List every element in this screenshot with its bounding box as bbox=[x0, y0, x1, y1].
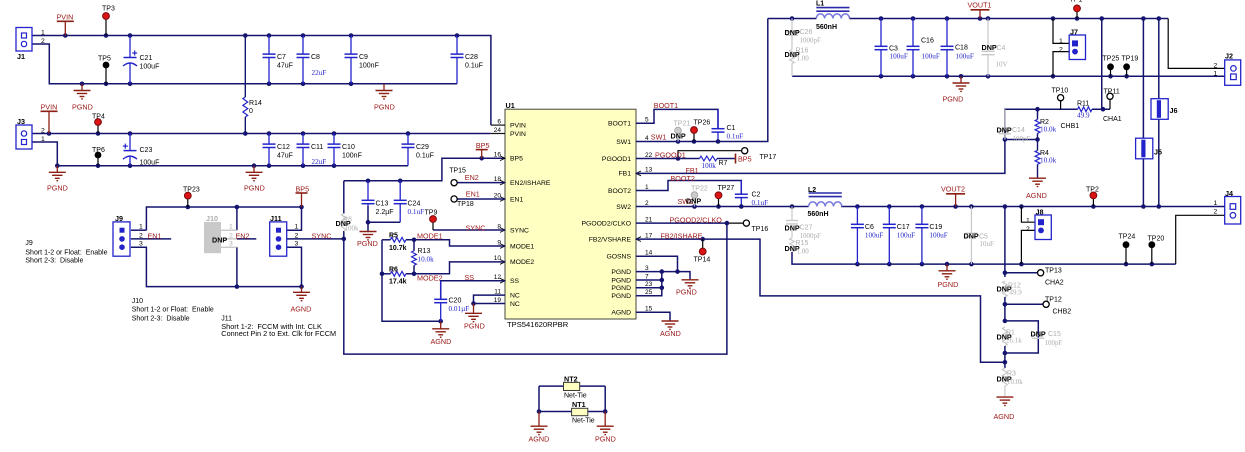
power port PVIN (rail2) bbox=[41, 103, 58, 134]
svg-text:AGND: AGND bbox=[291, 305, 312, 314]
svg-text:TP9: TP9 bbox=[425, 210, 438, 217]
svg-text:Short 2-3: Disable: Short 2-3: Disable bbox=[25, 258, 83, 265]
test point TP4 bbox=[95, 119, 102, 126]
test point TP27 bbox=[715, 192, 722, 199]
capacitor C14 (DNP) bbox=[999, 109, 1011, 139]
svg-text:TP20: TP20 bbox=[1148, 236, 1165, 243]
svg-text:TP1: TP1 bbox=[1070, 0, 1083, 4]
svg-text:C27: C27 bbox=[800, 225, 813, 232]
ground AGND at NT bbox=[529, 412, 550, 444]
junction dots SW1 bbox=[676, 139, 721, 144]
connector J7 bbox=[1059, 28, 1086, 60]
wire MODE1 row left bbox=[382, 239, 390, 241]
svg-text:1.00: 1.00 bbox=[797, 55, 810, 63]
net-tie NT1 bbox=[572, 400, 595, 424]
test point TP17 bbox=[742, 148, 748, 154]
capacitor C5 (DNP) bbox=[965, 207, 977, 265]
test point TP10 bbox=[1058, 95, 1064, 101]
svg-text:26.1k: 26.1k bbox=[1006, 336, 1022, 344]
ground PGND under J1 rail bbox=[72, 84, 93, 112]
svg-text:R11: R11 bbox=[1077, 100, 1089, 107]
capacitor C15 (DNP) bbox=[1032, 335, 1044, 338]
test point TP2 bbox=[1090, 192, 1097, 199]
wire J3 pin1 to PGND bottom rail2 bbox=[32, 142, 408, 166]
test point TP5 bbox=[103, 62, 110, 69]
svg-text:C6: C6 bbox=[865, 224, 874, 231]
svg-text:DNP: DNP bbox=[686, 197, 701, 206]
svg-text:NC: NC bbox=[510, 292, 520, 299]
svg-text:PGOOD1: PGOOD1 bbox=[655, 151, 686, 160]
svg-text:DNP: DNP bbox=[964, 232, 979, 241]
wire J11 pin1 riser bbox=[286, 207, 301, 230]
svg-text:BP5: BP5 bbox=[738, 154, 752, 163]
svg-text:C20: C20 bbox=[449, 298, 462, 305]
svg-text:J7: J7 bbox=[1070, 28, 1078, 37]
svg-text:22uF: 22uF bbox=[312, 158, 327, 166]
resistor R15 (DNP) bbox=[790, 238, 795, 252]
wire R1 bottom to FB2 node bbox=[1004, 346, 1006, 368]
svg-text:0: 0 bbox=[249, 108, 253, 115]
ground AGND under R3 bbox=[994, 397, 1015, 421]
svg-text:R13: R13 bbox=[418, 248, 431, 255]
power port BP5 at J11 bbox=[296, 184, 310, 207]
svg-text:PGND: PGND bbox=[611, 277, 631, 284]
svg-text:TP10: TP10 bbox=[1052, 87, 1069, 94]
resistor R14 bbox=[243, 97, 248, 117]
wire SS to C20 bbox=[441, 281, 505, 299]
junction dot TP14 bbox=[700, 237, 705, 242]
svg-text:TP12: TP12 bbox=[1045, 297, 1062, 304]
wire R12 to TP12 node bbox=[1004, 297, 1006, 321]
test point TP18 bbox=[451, 196, 457, 202]
test point TP25 bbox=[1107, 63, 1114, 70]
svg-text:PGND: PGND bbox=[47, 184, 68, 193]
capacitor C18 bbox=[941, 19, 954, 77]
svg-text:PGND: PGND bbox=[357, 239, 378, 248]
svg-text:100pF: 100pF bbox=[1013, 135, 1031, 143]
U1 left pin names bbox=[510, 122, 551, 307]
svg-text:TP13: TP13 bbox=[1045, 267, 1062, 274]
svg-text:J1: J1 bbox=[17, 52, 25, 61]
svg-text:R14: R14 bbox=[249, 100, 262, 107]
svg-text:10.0k: 10.0k bbox=[1040, 126, 1057, 134]
svg-text:MODE2: MODE2 bbox=[417, 274, 443, 283]
svg-text:C13: C13 bbox=[376, 201, 389, 208]
wire PVIN rail2 from J3 pin2 to U1 bbox=[32, 133, 490, 135]
test point TP1 stub bbox=[1076, 12, 1078, 19]
svg-text:TP18: TP18 bbox=[457, 201, 474, 208]
svg-text:PVIN: PVIN bbox=[510, 122, 526, 129]
junction dots PGND rail ch2 bbox=[855, 262, 1154, 267]
capacitor C16 bbox=[907, 19, 920, 77]
svg-text:SYNC: SYNC bbox=[466, 223, 486, 232]
svg-text:C26: C26 bbox=[800, 29, 813, 36]
test point TP11 bbox=[1107, 93, 1113, 99]
wire J7 pin1 bbox=[1053, 19, 1070, 44]
svg-text:0.01µF: 0.01µF bbox=[449, 305, 470, 313]
wire J11 pin2 SYNC bbox=[286, 238, 344, 240]
svg-text:Short 1-2 or Float: Enable: Short 1-2 or Float: Enable bbox=[25, 250, 107, 257]
wire SYNC/CLKO long route bbox=[344, 223, 727, 354]
svg-text:C8: C8 bbox=[311, 54, 320, 61]
wire SW1 rail to L1 bbox=[636, 19, 768, 142]
wire J1 pin2 to PGND bottom rail bbox=[32, 44, 457, 84]
svg-text:TP14: TP14 bbox=[694, 256, 711, 263]
wire EN2 to TP15 bbox=[454, 182, 505, 184]
svg-text:AGND: AGND bbox=[1026, 191, 1047, 200]
svg-text:R16: R16 bbox=[796, 48, 809, 55]
junction dots VOUT2 rail bbox=[855, 204, 1161, 209]
svg-text:100uF: 100uF bbox=[865, 232, 883, 240]
svg-text:2: 2 bbox=[229, 232, 233, 239]
svg-text:0.1uF: 0.1uF bbox=[416, 153, 434, 160]
test point TP21 (DNP) stub bbox=[677, 134, 679, 142]
test point TP16 bbox=[743, 220, 749, 226]
wire J7 pin2 bbox=[1053, 52, 1070, 77]
inductor L1 bbox=[816, 8, 849, 19]
svg-text:PGND: PGND bbox=[611, 269, 631, 276]
svg-text:R3: R3 bbox=[1007, 371, 1016, 378]
wire J9 pin1 bbox=[131, 229, 147, 231]
connector J9 bbox=[113, 214, 143, 256]
wire SYNC pin8 bbox=[433, 229, 505, 231]
svg-text:100nF: 100nF bbox=[359, 63, 379, 70]
test point TP26 stub bbox=[693, 133, 695, 141]
svg-text:AGND: AGND bbox=[660, 329, 681, 338]
wire J9 pin3 to AGND rail bbox=[131, 247, 302, 286]
svg-text:1: 1 bbox=[139, 224, 143, 231]
svg-text:VOUT1: VOUT1 bbox=[968, 1, 992, 10]
svg-text:1000pF: 1000pF bbox=[800, 232, 822, 240]
capacitor C6 bbox=[851, 207, 864, 265]
svg-text:TP16: TP16 bbox=[752, 226, 769, 233]
test point TP20 stub bbox=[1151, 248, 1153, 264]
svg-text:10.0k: 10.0k bbox=[1040, 157, 1057, 165]
test point TP6 stub bbox=[97, 158, 99, 166]
ground PGND ch1 output bbox=[943, 76, 970, 103]
test point TP13 bbox=[1038, 270, 1044, 276]
svg-text:J9: J9 bbox=[25, 240, 33, 247]
svg-text:Net-Tie: Net-Tie bbox=[572, 418, 595, 425]
svg-text:100k: 100k bbox=[345, 225, 360, 233]
capacitor C4 (DNP) bbox=[982, 19, 995, 77]
wire R13 bottom lead bbox=[413, 265, 415, 273]
svg-text:DNP: DNP bbox=[1031, 330, 1046, 339]
svg-text:AGND: AGND bbox=[611, 310, 631, 317]
wire left riser to AGND node bbox=[382, 240, 441, 321]
capacitor C11 bbox=[297, 134, 310, 166]
svg-text:24: 24 bbox=[494, 127, 502, 134]
svg-text:DNP: DNP bbox=[785, 223, 800, 232]
wire C13 bottom to PGND bbox=[367, 206, 369, 232]
capacitor C21 (polarized) bbox=[123, 36, 137, 84]
svg-text:3: 3 bbox=[139, 241, 143, 248]
U1 right pin numbers bbox=[645, 117, 653, 313]
svg-text:DNP: DNP bbox=[997, 126, 1012, 135]
connector J10 (DNP) bbox=[204, 214, 237, 253]
svg-text:C21: C21 bbox=[140, 55, 153, 62]
junction dots PVIN rail1 bbox=[63, 33, 459, 38]
wire J8 pin2 bbox=[1021, 230, 1036, 264]
svg-text:J6: J6 bbox=[1170, 106, 1178, 115]
test point TP10 stub bbox=[1060, 101, 1062, 109]
svg-text:560nH: 560nH bbox=[816, 24, 837, 31]
junction dot PGOOD1 bbox=[676, 156, 681, 161]
svg-text:C17: C17 bbox=[897, 224, 910, 231]
capacitor C9 bbox=[345, 36, 358, 84]
svg-text:1: 1 bbox=[41, 136, 45, 143]
svg-text:TP6: TP6 bbox=[92, 147, 105, 154]
svg-text:J2: J2 bbox=[1225, 52, 1233, 61]
wire NT right riser bbox=[604, 386, 606, 411]
svg-text:49.9: 49.9 bbox=[1010, 289, 1023, 297]
wire J10 pin2 EN2 bbox=[237, 238, 256, 240]
svg-text:SS: SS bbox=[465, 273, 475, 282]
capacitor C13 bbox=[362, 181, 375, 206]
wire PGOOD2/CLKO bbox=[636, 222, 727, 224]
connector J11 bbox=[270, 214, 299, 256]
svg-text:PGOOD2/CLKO: PGOOD2/CLKO bbox=[670, 216, 723, 225]
wire J10 pin1 riser bbox=[236, 207, 238, 230]
wire C15 parallel branch bbox=[1005, 321, 1038, 353]
test point TP5 stub bbox=[105, 68, 107, 84]
junction dots bottom rail2 bbox=[55, 163, 336, 168]
wire J10 pin3 riser bbox=[236, 247, 238, 286]
junction dots NT bbox=[537, 409, 608, 414]
test point TP12 bbox=[1043, 301, 1049, 307]
svg-text:BP5: BP5 bbox=[296, 184, 310, 193]
capacitor C7 bbox=[263, 36, 276, 84]
svg-text:TP3: TP3 bbox=[102, 6, 115, 13]
resistor R11 bbox=[1078, 107, 1092, 112]
svg-text:PGND: PGND bbox=[595, 434, 616, 443]
svg-text:TP23: TP23 bbox=[183, 186, 200, 193]
svg-text:TP15: TP15 bbox=[449, 167, 466, 174]
svg-text:SW2: SW2 bbox=[616, 204, 631, 211]
svg-text:R7: R7 bbox=[719, 160, 728, 167]
svg-text:C19: C19 bbox=[929, 224, 942, 231]
capacitor C10 bbox=[328, 134, 341, 166]
net-tie NT2 bbox=[564, 374, 587, 399]
wire J11 pin3 riser bbox=[286, 247, 301, 286]
svg-text:J9: J9 bbox=[115, 214, 123, 223]
svg-text:PVIN: PVIN bbox=[57, 13, 74, 22]
U1 pin arrows bbox=[500, 156, 641, 283]
svg-text:1: 1 bbox=[1214, 200, 1218, 207]
wire NT2 right bbox=[580, 385, 606, 387]
svg-text:SW1: SW1 bbox=[616, 139, 631, 146]
junction dots PGND pins bbox=[660, 269, 680, 290]
svg-text:C14: C14 bbox=[1012, 127, 1025, 134]
svg-text:TP27: TP27 bbox=[718, 185, 735, 192]
ground AGND under C20 bbox=[431, 321, 452, 346]
wire to TP12 bbox=[1005, 303, 1043, 305]
svg-text:AGND: AGND bbox=[994, 412, 1015, 421]
wire C24 bottom join bbox=[368, 221, 400, 223]
wire VOUT2 rail after L2 bbox=[841, 206, 1226, 208]
junction dot PGOOD2 bbox=[725, 221, 730, 226]
svg-text:100uF: 100uF bbox=[140, 160, 160, 167]
capacitor C26 (DNP) bbox=[786, 19, 798, 50]
svg-text:NT2: NT2 bbox=[564, 374, 578, 383]
svg-text:100uF: 100uF bbox=[897, 232, 915, 240]
wire NT1 right bbox=[588, 411, 605, 413]
test point TP19 bbox=[1123, 63, 1130, 70]
connector J3 bbox=[16, 117, 45, 149]
junction dots CHA1 row bbox=[1035, 107, 1105, 112]
svg-text:C2: C2 bbox=[752, 192, 761, 199]
svg-text:TP4: TP4 bbox=[92, 114, 105, 121]
wire AGND pin15 bbox=[636, 312, 670, 321]
svg-text:6: 6 bbox=[497, 118, 501, 125]
wire SW2 rail to L2 bbox=[636, 206, 809, 208]
svg-text:DNP: DNP bbox=[785, 28, 800, 37]
svg-text:TP22: TP22 bbox=[691, 186, 708, 193]
test point TP11 stub bbox=[1109, 100, 1111, 110]
wire PVIN rail from J1 pin1 to U1 bbox=[32, 36, 491, 126]
junction dots bottom rail1 bbox=[80, 82, 354, 87]
svg-text:100uF: 100uF bbox=[956, 52, 974, 60]
capacitor C19 bbox=[915, 207, 928, 265]
wire SW1 node to L1 bbox=[768, 18, 817, 20]
wire BOOT2 to C2 bbox=[636, 181, 741, 195]
svg-text:22uF: 22uF bbox=[312, 69, 327, 77]
svg-text:49.9: 49.9 bbox=[1077, 112, 1090, 120]
svg-text:FB2/ISHARE: FB2/ISHARE bbox=[661, 232, 703, 241]
svg-text:SW1: SW1 bbox=[651, 132, 667, 141]
wire PGND pin7 bbox=[636, 279, 662, 281]
ground PGND at NT bbox=[595, 412, 616, 444]
test point TP14 stub bbox=[702, 239, 704, 248]
wire R7 to BP5 bbox=[717, 158, 735, 160]
test point TP24 stub bbox=[1125, 248, 1127, 264]
svg-text:J10: J10 bbox=[206, 214, 218, 223]
resistor R5 bbox=[390, 237, 406, 242]
svg-text:DNP: DNP bbox=[671, 132, 686, 141]
svg-text:MODE1: MODE1 bbox=[510, 243, 534, 250]
svg-text:2: 2 bbox=[139, 232, 143, 239]
svg-text:10V: 10V bbox=[996, 60, 1008, 68]
svg-text:BOOT1: BOOT1 bbox=[608, 121, 631, 128]
svg-text:J8: J8 bbox=[1036, 208, 1044, 217]
svg-text:C15: C15 bbox=[1048, 331, 1061, 338]
wire PGND pin25 riser bbox=[636, 272, 662, 296]
test point TP19 stub bbox=[1126, 70, 1128, 76]
svg-text:C18: C18 bbox=[955, 45, 968, 52]
svg-text:CHB2: CHB2 bbox=[1053, 309, 1072, 316]
test point TP24 bbox=[1123, 241, 1130, 248]
svg-text:PGND: PGND bbox=[611, 293, 631, 300]
svg-text:EN1: EN1 bbox=[510, 197, 523, 204]
svg-text:0.1uF: 0.1uF bbox=[465, 63, 483, 70]
test point TP20 bbox=[1148, 241, 1155, 248]
junction dots SW2 bbox=[692, 204, 794, 209]
svg-text:DNP: DNP bbox=[982, 43, 997, 52]
wire BP5 down to R8 bbox=[343, 181, 345, 214]
svg-text:AGND: AGND bbox=[431, 337, 452, 346]
svg-text:10.0k: 10.0k bbox=[418, 255, 435, 263]
resistor R2 bbox=[1035, 119, 1040, 133]
wire NT2 left bbox=[539, 385, 564, 387]
wire MODE2 to pin10 bbox=[406, 262, 505, 274]
svg-text:PGND: PGND bbox=[938, 280, 959, 289]
svg-text:TP19: TP19 bbox=[1122, 56, 1139, 63]
wire VOUT2 sense riser bbox=[1004, 207, 1006, 278]
svg-text:TP17: TP17 bbox=[760, 154, 777, 161]
svg-text:EN2/ISHARE: EN2/ISHARE bbox=[510, 180, 551, 187]
U1 right pin names bbox=[582, 121, 632, 317]
wire FB1 node row bbox=[1005, 139, 1038, 141]
resistor R4 bbox=[1035, 150, 1040, 164]
capacitor C3 bbox=[875, 19, 888, 77]
svg-text:PGND: PGND bbox=[943, 94, 964, 103]
svg-text:47uF: 47uF bbox=[277, 63, 293, 70]
svg-text:2: 2 bbox=[295, 232, 299, 239]
svg-text:L2: L2 bbox=[808, 187, 816, 194]
svg-text:16: 16 bbox=[494, 152, 502, 159]
svg-text:U1: U1 bbox=[506, 101, 515, 110]
capacitor C2 bbox=[735, 181, 748, 207]
ground AGND under R4 bbox=[1026, 178, 1047, 200]
capacitor C17 bbox=[883, 207, 896, 265]
wire R2 top lead bbox=[1037, 109, 1039, 116]
test point TP14 bbox=[699, 248, 706, 255]
connector J4 bbox=[1214, 189, 1241, 224]
svg-text:2.2µF: 2.2µF bbox=[376, 209, 394, 216]
svg-text:47uF: 47uF bbox=[277, 153, 293, 160]
svg-text:10.7k: 10.7k bbox=[389, 245, 407, 252]
connector J8 bbox=[1026, 208, 1051, 240]
svg-text:DNP: DNP bbox=[212, 235, 227, 244]
test point TP23 stub bbox=[187, 199, 189, 207]
wire NT left riser bbox=[538, 386, 540, 411]
wire J4 pin2 to PGND bbox=[1176, 215, 1231, 264]
svg-text:BOOT2: BOOT2 bbox=[671, 174, 695, 183]
test point TP9 stub bbox=[432, 222, 434, 230]
wire BP5 pullup rail J9-J11 bbox=[146, 207, 301, 230]
wire FB1 long route bbox=[636, 109, 1078, 173]
wire CHA1 riser from VOUT1 bbox=[1101, 19, 1103, 110]
svg-text:CHB1: CHB1 bbox=[1061, 123, 1080, 130]
svg-text:PGND: PGND bbox=[611, 285, 631, 292]
junction dots FB2 divider bbox=[1003, 271, 1008, 365]
resistor R8 (DNP) body bbox=[341, 214, 346, 232]
jumper J6 bbox=[1151, 99, 1178, 120]
svg-text:J3: J3 bbox=[17, 117, 25, 126]
svg-text:C29: C29 bbox=[416, 144, 429, 151]
wire PGND pin23 bbox=[636, 287, 662, 289]
svg-text:PGND: PGND bbox=[464, 321, 485, 330]
wire FB2/VSHARE long route bbox=[636, 239, 1005, 362]
test point TP3 stub bbox=[105, 19, 107, 36]
wire BP5 from U1 pin16 bbox=[344, 158, 505, 181]
wire EN1 to TP18 bbox=[454, 198, 505, 200]
svg-text:10uF: 10uF bbox=[980, 240, 995, 248]
wire U1 pin6 PVIN bbox=[491, 124, 505, 126]
capacitor C23 (polarized) bbox=[123, 134, 137, 166]
ground PGND at U1 pins bbox=[676, 280, 699, 297]
wire VOUT1 rail bbox=[850, 18, 1169, 20]
svg-text:FB1: FB1 bbox=[619, 171, 632, 178]
junction dots PVIN rail2 bbox=[47, 131, 411, 136]
svg-text:2: 2 bbox=[1026, 226, 1030, 233]
svg-text:1000pF: 1000pF bbox=[800, 37, 822, 45]
test point TP25 stub bbox=[1110, 70, 1112, 76]
svg-text:PGND: PGND bbox=[244, 184, 265, 193]
svg-text:18: 18 bbox=[494, 176, 502, 183]
svg-text:2: 2 bbox=[41, 127, 45, 134]
wire PGOOD2 to TP16 bbox=[727, 222, 744, 224]
